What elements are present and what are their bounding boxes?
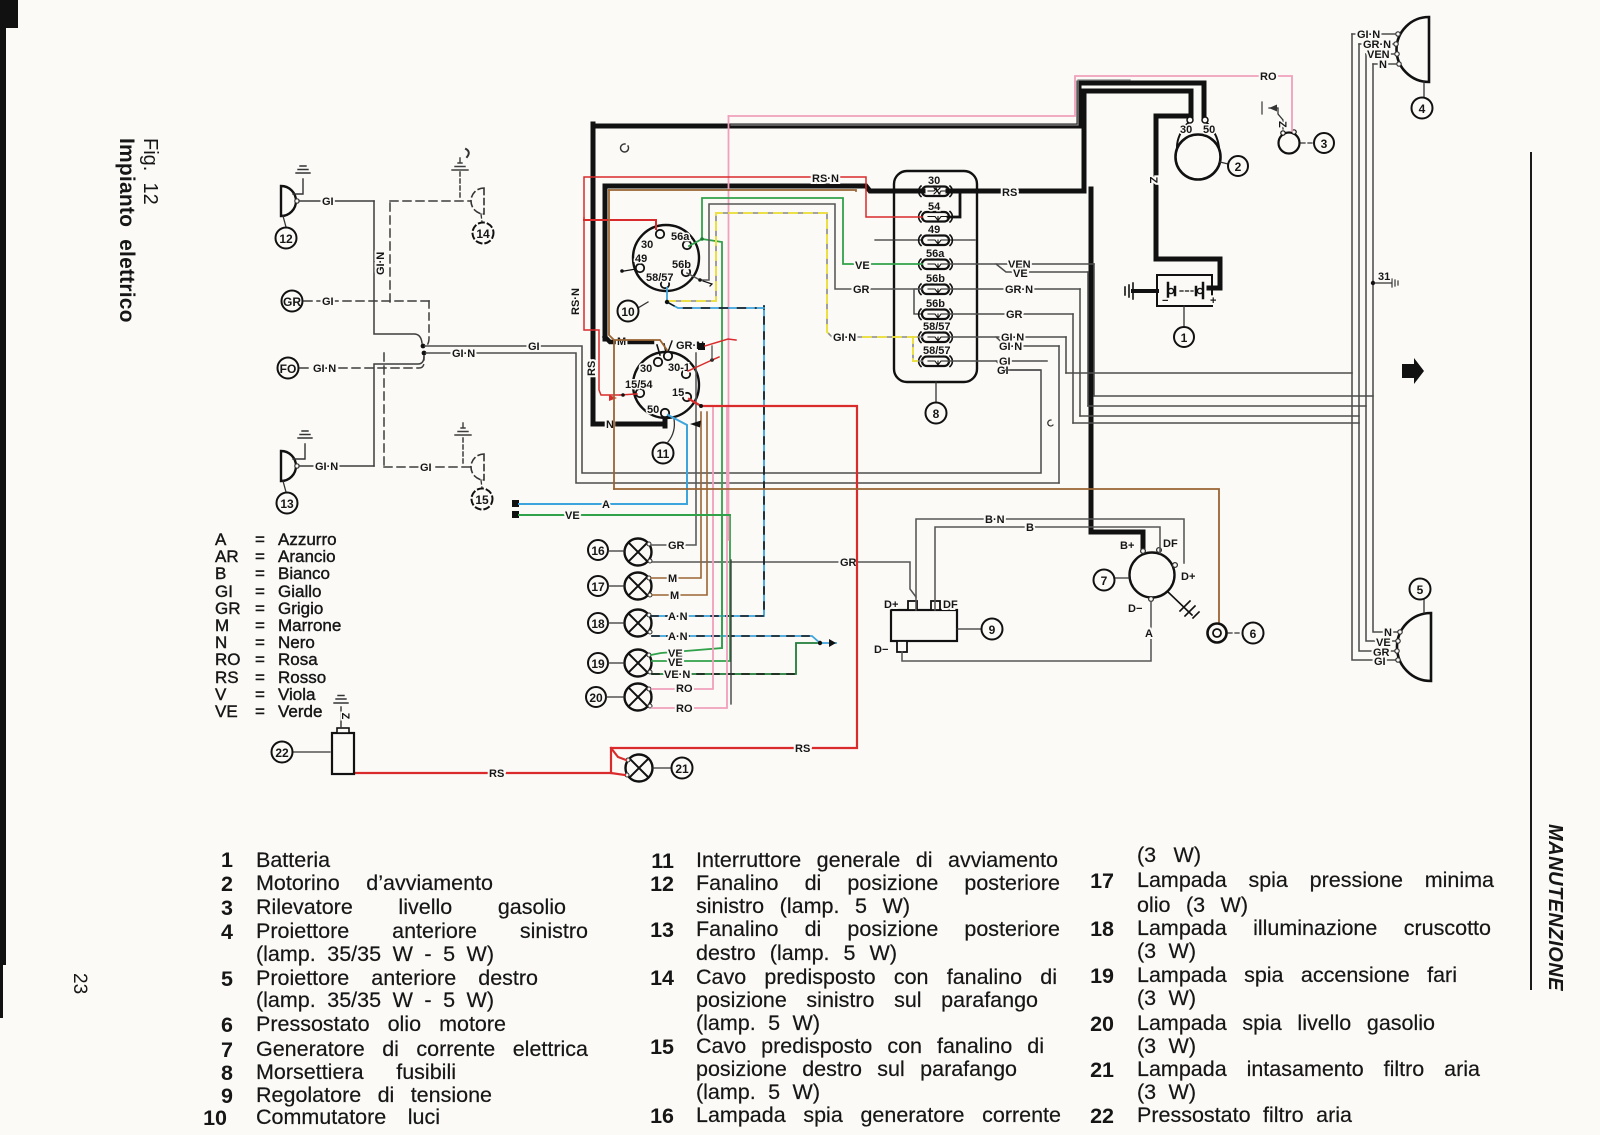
blue black dash on it bbox=[667, 302, 756, 308]
ref circle 3 bbox=[1301, 142, 1313, 144]
S10 terminal 56a bbox=[683, 241, 691, 249]
wire VE lamp19 upper bbox=[651, 239, 722, 655]
svg-text:2: 2 bbox=[1235, 160, 1242, 174]
svg-text:31: 31 bbox=[1378, 271, 1390, 283]
wire GI pair from fuse 58/57 bbox=[948, 361, 1047, 370]
svg-text:14: 14 bbox=[476, 227, 490, 241]
wire GR lamp16 lower long bbox=[652, 562, 916, 597]
wire RS-N red vertical bbox=[584, 218, 620, 395]
page number 23 bbox=[68, 973, 90, 994]
svg-text:VE: VE bbox=[565, 510, 580, 522]
svg-text:8: 8 bbox=[933, 407, 940, 421]
wire M brown long to pressure switch 6 bbox=[614, 489, 1219, 624]
wire red to switch10 terminal 30 bbox=[584, 220, 656, 229]
battery-like body 22 bbox=[332, 733, 354, 774]
svg-text:Z: Z bbox=[1276, 121, 1288, 128]
wire N trunk left vertical down to switch 11 bbox=[593, 124, 665, 426]
svg-text:15: 15 bbox=[475, 493, 489, 507]
arrow marker right side bbox=[1402, 358, 1424, 384]
GR dashed GI wire bbox=[304, 300, 429, 302]
svg-text:RS: RS bbox=[795, 743, 810, 755]
svg-text:10: 10 bbox=[621, 305, 635, 319]
fuse 49 bbox=[922, 224, 949, 245]
svg-text:GR: GR bbox=[283, 295, 301, 309]
S11 terminal 30 bbox=[654, 358, 662, 366]
wire VE green horizontal bbox=[519, 514, 730, 516]
svg-text:30: 30 bbox=[641, 239, 653, 251]
svg-text:A·N: A·N bbox=[668, 631, 688, 643]
ref circle 13 bbox=[283, 481, 286, 492]
ground above 22 bbox=[334, 696, 348, 729]
svg-text:B·N: B·N bbox=[985, 514, 1005, 526]
wire GI yellow to fuse 58/57 second bbox=[913, 337, 922, 361]
svg-text:15/54: 15/54 bbox=[625, 379, 653, 391]
svg-text:A: A bbox=[1145, 628, 1153, 640]
svg-text:Z: Z bbox=[1147, 177, 1159, 184]
lamp 12 ground bbox=[293, 166, 310, 194]
wire Z starter to battery plus bbox=[1156, 116, 1220, 288]
svg-text:−: − bbox=[1162, 295, 1168, 307]
ref circle 2 bbox=[1220, 162, 1228, 164]
wire VE vertical to lamp19 bbox=[721, 515, 723, 648]
wire RS red from battery 22 bbox=[354, 772, 611, 774]
fuse 56a bbox=[922, 248, 949, 269]
ref circle 5 bbox=[1423, 600, 1425, 613]
svg-text:56b: 56b bbox=[926, 298, 945, 310]
headlight H4 body bbox=[1397, 17, 1430, 82]
svg-text:19: 19 bbox=[591, 657, 605, 671]
svg-text:21: 21 bbox=[675, 762, 689, 776]
svg-text:58/57: 58/57 bbox=[923, 345, 951, 357]
wire GI to fuse area bbox=[425, 346, 1041, 473]
svg-text:58/57: 58/57 bbox=[646, 272, 674, 284]
svg-text:VE: VE bbox=[855, 260, 870, 272]
generator terminal B+ bbox=[1141, 549, 1146, 554]
svg-text:D−: D− bbox=[874, 644, 888, 656]
svg-text:18: 18 bbox=[591, 617, 605, 631]
colour legend bbox=[215, 531, 341, 720]
dashed wire to lamp 15 bbox=[384, 466, 470, 468]
S11 terminal 15 bbox=[683, 393, 691, 401]
node 31 ground tap bbox=[1371, 281, 1375, 285]
wire VEN from fuse 56a bbox=[948, 264, 1094, 272]
lamp 15 dashed ground bbox=[462, 437, 464, 463]
title Fig. 12 bbox=[138, 138, 161, 205]
regulator terminal D- bbox=[897, 641, 907, 652]
svg-text:9: 9 bbox=[989, 623, 996, 637]
svg-text:RS·N: RS·N bbox=[812, 173, 839, 185]
parts list column 2 bbox=[640, 849, 674, 874]
FO dashed GI-N wire bbox=[300, 357, 424, 368]
svg-text:30: 30 bbox=[928, 175, 940, 187]
svg-text:D+: D+ bbox=[1181, 571, 1195, 583]
svg-text:Z: Z bbox=[339, 713, 351, 720]
wire grey S10 58/57 down bbox=[667, 288, 764, 308]
svg-text:4: 4 bbox=[1419, 102, 1426, 116]
ref circle 10 bbox=[638, 302, 648, 308]
node junction GI bbox=[421, 344, 426, 349]
wire VE-N lamp19 lower bbox=[652, 643, 817, 674]
svg-text:N: N bbox=[606, 419, 614, 431]
fuse 58/57 second bbox=[922, 345, 951, 366]
svg-text:GR: GR bbox=[840, 557, 857, 569]
wire VE column bbox=[1366, 54, 1395, 641]
generator body bbox=[1130, 553, 1175, 598]
wire red into 15/54 bbox=[620, 394, 637, 395]
wire red upper stub to lamp21 bbox=[611, 748, 626, 760]
ref circle 1 bbox=[1174, 327, 1194, 347]
fuse 56b bbox=[922, 273, 949, 294]
svg-text:GI·N: GI·N bbox=[315, 461, 338, 473]
svg-text:22: 22 bbox=[275, 746, 289, 760]
S11 terminal 30-1 bbox=[682, 370, 690, 378]
internal stubs and 49 lead bbox=[875, 239, 975, 241]
svg-text:58/57: 58/57 bbox=[923, 321, 951, 333]
generator terminal D+ bbox=[1173, 563, 1178, 568]
svg-text:GI: GI bbox=[997, 365, 1009, 377]
svg-text:GI·N: GI·N bbox=[452, 348, 475, 360]
wire RS-N red to fuse 54 bbox=[584, 177, 922, 218]
svg-text:VE: VE bbox=[1013, 268, 1028, 280]
svg-text:6: 6 bbox=[1250, 627, 1257, 641]
title Impianto elettrico bbox=[114, 138, 138, 323]
wire battery branch: up to starter terminal 30 bbox=[1084, 91, 1191, 189]
svg-text:5: 5 bbox=[1417, 583, 1424, 597]
svg-text:A·N: A·N bbox=[668, 611, 688, 623]
GR dashed drop to junction bbox=[426, 301, 429, 346]
lamp 18 body bbox=[625, 610, 653, 637]
tail lamp 13 body bbox=[281, 451, 296, 481]
svg-text:3: 3 bbox=[1321, 137, 1328, 151]
svg-text:M: M bbox=[617, 336, 626, 348]
ref circle 21 bbox=[653, 767, 670, 769]
vertical drops of fuse outputs bbox=[1066, 264, 1094, 423]
pink trunk from top bbox=[728, 116, 730, 540]
svg-text:GI·N: GI·N bbox=[313, 363, 336, 375]
svg-text:49: 49 bbox=[928, 224, 940, 236]
S10 pivot mark bbox=[620, 269, 624, 273]
svg-text:56a: 56a bbox=[671, 231, 690, 243]
svg-text:30: 30 bbox=[1180, 124, 1192, 136]
svg-text:RO: RO bbox=[1260, 71, 1277, 83]
ref circle 4 bbox=[1423, 82, 1425, 97]
wire RO pink top run bbox=[729, 76, 1293, 131]
svg-text:GR·N: GR·N bbox=[1005, 284, 1033, 296]
wire B regulator to generator bbox=[935, 527, 1160, 610]
fuse 30 bbox=[922, 175, 949, 196]
H4 terminal leads bbox=[1352, 34, 1396, 64]
wire N column bbox=[1373, 64, 1397, 632]
S11 terminal 15/54 bbox=[636, 389, 644, 397]
svg-text:GI: GI bbox=[1374, 656, 1386, 668]
S10 terminal 49 bbox=[636, 264, 644, 272]
svg-text:50: 50 bbox=[647, 404, 659, 416]
fuse box body bbox=[894, 171, 977, 382]
svg-text:GI: GI bbox=[420, 462, 432, 474]
bus to headlamps: horizontals bbox=[1066, 373, 1373, 423]
svg-text:54: 54 bbox=[928, 201, 941, 213]
svg-text:D−: D− bbox=[1128, 603, 1142, 615]
svg-text:GR: GR bbox=[1006, 309, 1023, 321]
wire B-N regulator to generator bbox=[916, 519, 1184, 610]
svg-text:12: 12 bbox=[279, 232, 293, 246]
pressure switch 6 body bbox=[1208, 624, 1227, 643]
wire from tail GI riser bbox=[1058, 346, 1060, 483]
svg-text:B: B bbox=[1026, 522, 1034, 534]
lamp 12 terminal and GI wire bbox=[295, 199, 299, 203]
H5 terminals bbox=[1398, 630, 1402, 634]
wire battery feed down to generator B+ bbox=[1091, 189, 1143, 547]
lamp 15 body dashed bbox=[471, 454, 484, 480]
svg-text:GR: GR bbox=[853, 284, 870, 296]
battery minus lead and ground bbox=[1133, 289, 1157, 293]
wire RS from fuse 30 to battery branch bbox=[948, 189, 1084, 194]
starter motor M2 body bbox=[1176, 135, 1221, 180]
wire M brown top run bbox=[609, 190, 856, 191]
svg-text:13: 13 bbox=[280, 497, 294, 511]
wire GR-N from fuse 56b bbox=[948, 288, 1080, 290]
wire red from GR-N square bbox=[705, 339, 736, 346]
regulator terminal DF bbox=[931, 601, 940, 610]
svg-text:RS: RS bbox=[489, 768, 504, 780]
svg-text:VE: VE bbox=[668, 657, 683, 669]
ref circle 20 bbox=[586, 687, 606, 707]
wire GR lamp16 upper bbox=[651, 353, 696, 545]
wire GR from fuse 56b bbox=[948, 313, 1073, 315]
svg-text:50: 50 bbox=[1203, 124, 1215, 136]
svg-text:M: M bbox=[670, 590, 679, 602]
wire N trunk: top horizontal to starter terminal 50 bbox=[593, 83, 1204, 126]
wire M lamp17 upper bbox=[651, 412, 701, 578]
lamp 19 body bbox=[625, 650, 653, 677]
svg-text:D+: D+ bbox=[884, 599, 898, 611]
wire M brown vertical bbox=[609, 190, 614, 489]
parts list column 1 bbox=[199, 848, 233, 873]
svg-text:B+: B+ bbox=[1120, 540, 1134, 552]
internal right link fuse30-54 bbox=[948, 191, 960, 217]
svg-text:RS: RS bbox=[586, 361, 598, 376]
wire RO lamp20 lower bbox=[652, 408, 727, 708]
tail lamp 12 body bbox=[281, 186, 296, 216]
wire GR grey loop to fuse 56b bbox=[687, 204, 922, 289]
svg-text:GI·N: GI·N bbox=[999, 341, 1022, 353]
ref circle 22 bbox=[293, 751, 330, 753]
wire M brown to S11 top bbox=[614, 340, 667, 350]
lamp 14 body dashed bbox=[471, 188, 484, 214]
switch S10 body bbox=[633, 225, 699, 291]
wire A-N lamp18 upper bbox=[651, 306, 764, 616]
svg-text:M: M bbox=[668, 573, 677, 585]
svg-text:GI: GI bbox=[528, 341, 540, 353]
svg-text:56b: 56b bbox=[672, 259, 691, 271]
ref circle 18 bbox=[588, 613, 608, 633]
lamp 21 body bbox=[625, 755, 653, 782]
svg-text:30: 30 bbox=[640, 363, 652, 375]
lamp 20 body bbox=[625, 684, 653, 711]
ref circle 6 bbox=[1228, 632, 1242, 634]
generator ground hatch bbox=[1168, 592, 1199, 618]
printing mark curl bbox=[621, 144, 629, 152]
svg-text:DF: DF bbox=[943, 599, 958, 611]
MANUTENZIONE bbox=[1543, 824, 1566, 991]
dashed riser to lamp 15 bbox=[383, 353, 385, 467]
ref circle 12 bbox=[283, 216, 286, 227]
parts list column 3 bbox=[1137, 844, 1201, 867]
fuse 56b second bbox=[922, 298, 949, 319]
node: battery stem to label 1 bbox=[1183, 306, 1185, 327]
sensor 3 ground with Z bbox=[1269, 108, 1283, 129]
switch S11 body bbox=[633, 352, 699, 418]
svg-text:7: 7 bbox=[1101, 574, 1108, 588]
wire A generator D- to regulator bbox=[902, 602, 1151, 661]
svg-text:11: 11 bbox=[657, 447, 670, 461]
right rule bbox=[1530, 152, 1532, 990]
wire GI-N pair from fuse 58/57 bbox=[948, 337, 1066, 346]
svg-text:20: 20 bbox=[589, 691, 603, 705]
wire RS trunk from switch area to fuse 30 bbox=[605, 186, 923, 339]
wire GI column bbox=[1352, 34, 1395, 660]
dashed wire to lamp 14 bbox=[390, 200, 470, 202]
battery B1 bbox=[1157, 275, 1216, 307]
svg-text:RO: RO bbox=[676, 703, 693, 715]
left page edge black strip bbox=[0, 0, 6, 965]
ref circle 7 bbox=[1114, 577, 1129, 579]
wire lamp12 GI down bbox=[374, 201, 422, 343]
S11 top terminal GR-N bbox=[668, 341, 672, 352]
starter terminals 30 and 50 bbox=[1187, 117, 1193, 123]
sensor 3 body bbox=[1279, 133, 1300, 154]
svg-text:DF: DF bbox=[1163, 538, 1178, 550]
regulator body bbox=[891, 610, 957, 641]
fuse 58/57 bbox=[922, 321, 951, 342]
ref circle 17 bbox=[588, 576, 608, 596]
svg-text:A: A bbox=[602, 499, 610, 511]
svg-text:+: + bbox=[1210, 295, 1216, 307]
connector GR body bbox=[282, 291, 303, 312]
svg-text:GI·N: GI·N bbox=[833, 332, 856, 344]
S10 terminal 30 bbox=[656, 230, 664, 238]
grey companion under RO bbox=[731, 80, 1130, 125]
regulator terminal D+ bbox=[908, 601, 917, 610]
headlight H5 body bbox=[1397, 613, 1431, 681]
connector FO body bbox=[278, 358, 299, 379]
lamp 13 ground bbox=[293, 431, 312, 459]
svg-text:GR: GR bbox=[668, 540, 685, 552]
wire VE lamp19 second bbox=[652, 516, 730, 661]
lamp 16 body bbox=[625, 539, 653, 566]
svg-text:FO: FO bbox=[280, 362, 297, 376]
lamp 14 dashed ground bbox=[459, 172, 461, 197]
wire GR column bbox=[1359, 44, 1394, 651]
connector square VE bbox=[512, 511, 519, 518]
svg-text:56b: 56b bbox=[926, 273, 945, 285]
ref circle 16 bbox=[588, 540, 608, 560]
wire VE green loop to fuse 56a bbox=[689, 198, 922, 264]
ref circle 8 bbox=[935, 382, 937, 402]
fuse 54 bbox=[922, 201, 949, 222]
S10 terminal 56b bbox=[682, 268, 690, 276]
S10 terminal 58/57 bbox=[661, 280, 669, 288]
ref circle 9 bbox=[957, 628, 981, 630]
ref circle 11 bbox=[668, 419, 674, 442]
lamp 17 body bbox=[625, 573, 653, 600]
svg-text:VE·N: VE·N bbox=[664, 669, 690, 681]
lamp 13 terminal and GI-N wire bbox=[295, 464, 299, 468]
ref circle 14 dashed bbox=[481, 214, 482, 222]
svg-text:RO: RO bbox=[676, 683, 693, 695]
svg-text:15: 15 bbox=[672, 387, 684, 399]
wire RS red from S11 15 to lamp 21 bbox=[611, 399, 857, 775]
svg-text:56a: 56a bbox=[926, 248, 945, 260]
svg-text:17: 17 bbox=[591, 580, 605, 594]
svg-text:GI: GI bbox=[322, 296, 334, 308]
svg-text:RS·N: RS·N bbox=[570, 288, 582, 315]
wire A-N lamp18 lower with arrow bbox=[652, 636, 836, 643]
svg-text:GI·N: GI·N bbox=[375, 252, 387, 275]
wire GI-N to fuse area bbox=[426, 353, 1059, 483]
svg-text:16: 16 bbox=[591, 544, 605, 558]
S11 terminal 50 bbox=[661, 409, 669, 417]
black companion of pink trunk bbox=[730, 560, 732, 704]
wire M lamp17 lower bbox=[652, 412, 707, 595]
wire red from S11 30-1 stub bbox=[688, 357, 719, 371]
wire RO lamp20 upper bbox=[652, 408, 713, 689]
wire lamp13 GI-N up bbox=[374, 356, 424, 466]
generator terminal D- bbox=[1149, 597, 1154, 602]
generator terminal DF bbox=[1157, 548, 1162, 553]
svg-text:RS: RS bbox=[1002, 187, 1017, 199]
ref circle 15 dashed bbox=[481, 480, 482, 488]
fuse pill end ticks bbox=[919, 186, 953, 367]
ref circle 19 bbox=[588, 653, 608, 673]
svg-text:30-1: 30-1 bbox=[668, 362, 690, 374]
tiny curl mark on bus bbox=[1048, 420, 1053, 426]
svg-text:49: 49 bbox=[635, 253, 647, 265]
link between 56b fuses bbox=[914, 289, 922, 314]
svg-text:GI: GI bbox=[322, 196, 334, 208]
connector square A bbox=[512, 500, 519, 507]
wire A blue bbox=[519, 415, 687, 504]
dashed GI-N riser bbox=[389, 201, 391, 302]
node junction GI-N bbox=[422, 351, 427, 356]
wire GI yellow loop to fuse 58/57 bbox=[667, 213, 922, 337]
H4 terminals bbox=[1396, 32, 1400, 36]
svg-text:N: N bbox=[1379, 59, 1387, 71]
svg-text:1: 1 bbox=[1181, 331, 1188, 345]
